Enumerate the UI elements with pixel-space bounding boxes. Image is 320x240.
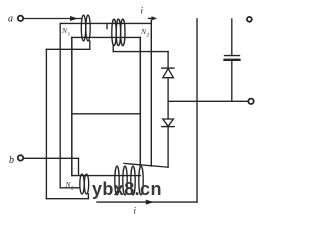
svg-text:2: 2 <box>71 186 74 192</box>
current arrow on wire from a <box>70 16 78 21</box>
wire bottom return <box>97 201 197 203</box>
capacitor C top lead <box>231 19 233 55</box>
wire bottom-left up hook <box>87 194 89 199</box>
svg-text:ybx8.cn: ybx8.cn <box>92 179 162 199</box>
wire D2 down <box>167 127 169 168</box>
wire left loop horizontal <box>46 48 89 50</box>
core B bottom edge <box>72 175 141 177</box>
node output terminal <box>248 99 253 104</box>
wire link to winding W4 <box>124 163 168 167</box>
wire centre tap <box>72 113 141 115</box>
winding W3 loop 2 <box>84 174 88 194</box>
core B top edge <box>72 36 141 38</box>
wire right side vertical <box>196 19 198 202</box>
winding W4 loop 3 <box>131 166 135 195</box>
winding W4 loop 1 <box>115 166 119 195</box>
wire left loop vertical <box>45 49 47 198</box>
winding W2 loop 1 <box>112 19 116 46</box>
core B left edge <box>71 37 73 175</box>
wire D1 to junction <box>167 78 169 119</box>
diode D1 cathode bar <box>162 67 174 69</box>
node b terminal <box>18 155 23 160</box>
wire output to terminal <box>168 100 248 102</box>
current arrow on bottom return wire <box>146 200 154 205</box>
capacitor C top plate <box>225 55 240 57</box>
winding W1 loop 2 <box>86 15 90 41</box>
svg-text:2: 2 <box>147 33 150 39</box>
svg-text:b: b <box>9 155 14 166</box>
capacitor C bottom plate <box>225 59 240 61</box>
winding W4 loop 2 <box>123 166 127 195</box>
svg-text:1: 1 <box>68 32 71 38</box>
wire bottom-left horizontal <box>46 198 88 200</box>
diode D2 cathode bar <box>162 126 174 128</box>
winding W1 loop 1 <box>81 15 85 41</box>
node top right terminal <box>247 17 252 22</box>
junction tick <box>106 23 108 28</box>
svg-text:a: a <box>8 14 13 25</box>
node a terminal <box>18 16 23 21</box>
winding W2 loop 2 <box>116 19 120 46</box>
wire W1 exit down <box>89 41 91 50</box>
winding W4 loop 4 <box>139 166 143 195</box>
diode D2 triangle <box>163 119 174 126</box>
capacitor C bottom lead <box>231 61 233 101</box>
core A left edge <box>59 23 61 187</box>
wire from b <box>24 157 79 159</box>
wire W2 to diode D1 <box>113 51 168 53</box>
core B right edge <box>139 37 141 166</box>
wire W2 exit down <box>112 45 114 52</box>
winding W3 loop 1 <box>80 174 84 194</box>
core A top edge <box>60 22 151 24</box>
wire from a <box>24 18 82 20</box>
current arrow top right <box>149 17 153 19</box>
wire diode column upper <box>167 52 169 69</box>
winding W2 loop 3 <box>121 19 125 46</box>
diode D1 triangle <box>163 69 174 78</box>
core A right edge <box>150 20 152 166</box>
wire W3 left link <box>60 187 80 189</box>
wire b down <box>78 158 80 174</box>
